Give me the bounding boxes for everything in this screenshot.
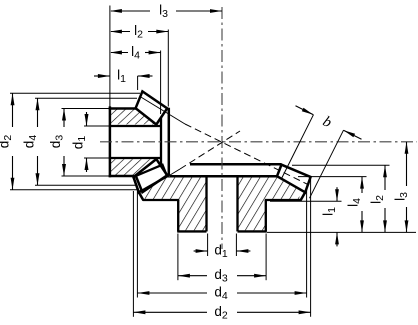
d3 top extension line	[62, 108, 110, 110]
d4 bottom extension line	[35, 184, 136, 186]
label d4	[22, 135, 40, 149]
b arrow 1	[302, 108, 314, 115]
pinion root face	[160, 116, 162, 169]
l4 top extension line right	[298, 176, 367, 178]
d4 left extension line bottom	[136, 187, 138, 298]
tip cone line upper solid part	[140, 97, 185, 125]
dimension l2 line	[111, 31, 130, 33]
pinion hatch top section	[110, 108, 156, 124]
l1 top extension line right	[270, 200, 342, 202]
gear step right	[265, 199, 301, 201]
d1 top extension line	[84, 125, 109, 127]
dimension d4 arrows	[36, 98, 40, 110]
b arrow 2	[344, 130, 356, 137]
label b	[320, 114, 334, 132]
gear root plane line	[167, 175, 278, 178]
pinion hub bottom line	[109, 175, 139, 178]
dimension d3 arrows	[62, 109, 66, 121]
pinion axis center line	[100, 141, 417, 143]
label d1	[71, 136, 89, 150]
d2 right extension line bottom	[310, 179, 312, 317]
gear hub bottom left	[177, 230, 206, 232]
gear bore left wall	[205, 177, 207, 231]
pinion bore top line	[109, 125, 161, 127]
b extension line 2	[310, 130, 344, 198]
top extension line at back face	[109, 6, 111, 107]
label d2	[0, 135, 14, 149]
d2 left extension line bottom	[132, 191, 134, 317]
dimension l2 right arrows	[383, 165, 387, 177]
d3 left extension line bottom	[177, 234, 179, 281]
dimension d2 bottom arrows	[133, 310, 145, 314]
dimension d2 arrows	[11, 93, 15, 105]
gear hatch left section	[145, 177, 207, 230]
dimension l2 arrows	[110, 30, 122, 34]
d2 bottom extension line	[10, 189, 139, 191]
label l2 right	[369, 195, 387, 204]
pinion hatch bottom section	[110, 159, 156, 175]
pinion hub top line	[109, 107, 137, 110]
b extension line 1	[282, 115, 314, 178]
gear step left	[143, 199, 179, 201]
tip cone line lower dashed part	[180, 131, 240, 169]
gear hub left side	[177, 200, 179, 231]
d1 left extension line bottom	[207, 234, 209, 257]
pinion body fill	[109, 107, 170, 176]
label d3	[48, 135, 66, 149]
gear tooth right	[277, 165, 311, 193]
dimension l1 right arrows	[335, 189, 339, 201]
l2 top extension line right	[292, 164, 390, 166]
gear bore right wall	[236, 177, 238, 231]
pinion bore bottom line	[109, 157, 161, 159]
dimension d3 line	[63, 109, 65, 128]
d4 top extension line	[35, 97, 137, 99]
gear rim right edge	[301, 192, 306, 200]
pinion tooth top	[136, 91, 168, 124]
dimension d1 tails	[86, 112, 88, 126]
label l3 right	[393, 192, 411, 201]
dimension l3 right arrows	[405, 142, 409, 154]
dimension l3 line	[111, 10, 150, 12]
dimension d1 bottom arrows	[196, 249, 208, 253]
label l1 right	[321, 207, 339, 216]
dimension l1 arrows	[98, 74, 110, 78]
gear axis center line	[221, 7, 223, 249]
dimension l1 tails	[94, 75, 110, 77]
gear rim left edge	[139, 192, 144, 200]
dimension l1 right tails	[336, 187, 338, 201]
dimension d3 bottom line	[178, 275, 207, 277]
gear hatch right section	[238, 177, 300, 230]
dimension l4 arrows	[110, 51, 122, 55]
l1 extension line	[137, 76, 139, 90]
gear hub right side	[265, 200, 267, 231]
l2 extension line	[167, 30, 169, 107]
l4 extension line	[160, 51, 162, 115]
dimension l4 right arrows	[360, 177, 364, 189]
dimension l4 right line	[361, 177, 363, 193]
gear tooth left	[133, 165, 167, 193]
d4 right extension line bottom	[306, 188, 308, 298]
pinion tooth bottom	[136, 159, 168, 192]
dimension d1 arrows	[85, 114, 89, 126]
dimension d4 bottom line	[137, 292, 207, 294]
gear hub bottom right	[238, 230, 267, 232]
label l4 right	[346, 198, 364, 207]
pinion back face	[109, 106, 112, 177]
tip cone line upper dashed part	[185, 124, 309, 185]
d1 bottom extension line	[84, 157, 109, 159]
gear wheel body fill	[139, 163, 311, 231]
b arrow 1 leader	[296, 106, 314, 115]
dimension l2 right line	[384, 165, 386, 190]
tip cone line lower solid part	[145, 169, 181, 191]
d3 right extension line bottom	[265, 234, 267, 281]
gear top face line	[190, 163, 282, 166]
dimension d4 line	[37, 98, 39, 127]
pinion front face	[168, 108, 171, 176]
gear tooth left outline re-stroke	[133, 165, 167, 193]
d1 right extension line bottom	[235, 234, 237, 257]
dimension l4 line	[111, 52, 128, 54]
dimension d2 line	[12, 93, 14, 127]
dimension d3 bottom arrows	[178, 274, 190, 278]
b arrow 2 leader	[344, 130, 362, 139]
dimension d2 bottom line	[133, 311, 207, 313]
d3 bottom extension line	[62, 175, 110, 177]
dimension d4 bottom arrows	[137, 291, 149, 295]
dimension l3 right line	[406, 142, 408, 186]
dimension l3 arrows	[110, 9, 122, 13]
d2 top extension line	[10, 92, 140, 94]
right common bottom extension line	[267, 231, 416, 233]
dimension d1 bottom tails	[194, 250, 208, 252]
